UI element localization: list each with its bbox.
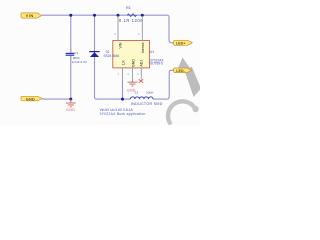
svg-text:SOT89-5: SOT89-5 (150, 62, 163, 66)
svg-text:LX: LX (121, 60, 125, 65)
svg-text:R1: R1 (126, 6, 131, 10)
wire: C1 pin segments (grey) (70, 49, 72, 60)
junction node LX rail (121, 98, 124, 101)
pin stub LX (bottom) (122, 68, 124, 81)
svg-text:LED-: LED- (176, 69, 185, 73)
wire: VIN top rail (42, 14, 167, 16)
svg-text:VIN: VIN (119, 42, 123, 48)
svg-text:SS24 SMA: SS24 SMA (104, 54, 120, 58)
port VIN (21, 13, 42, 18)
junction node GND rail (69, 98, 72, 101)
svg-text:VIN: VIN (26, 13, 34, 18)
wire: GND rail bottom-left (42, 98, 70, 100)
no-connect X on ADJ pin (139, 79, 143, 83)
capacitor C1 (66, 51, 88, 64)
svg-text:GND: GND (26, 97, 35, 101)
svg-text:3Y022AX Buck application: 3Y022AX Buck application (100, 112, 146, 116)
wire: top rail corner down to LED+ port (167, 15, 174, 43)
svg-text:ADJ: ADJ (140, 60, 144, 67)
grey arc watermark (168, 101, 195, 122)
port LED+ (174, 40, 193, 45)
junction node R1 left / VIN pin (117, 14, 120, 17)
svg-text:10uH: 10uH (146, 91, 153, 95)
svg-text:0.1R 1206: 0.1R 1206 (119, 18, 143, 23)
svg-text:GND: GND (131, 59, 135, 67)
pin stub Isense (top) (141, 16, 143, 41)
IC U1 body (113, 41, 150, 68)
inductor L1 (130, 91, 162, 107)
pin stub GND (bottom) (132, 68, 134, 81)
ground symbol at U1 GND pin (128, 80, 138, 86)
svg-text:LED+: LED+ (176, 41, 186, 45)
svg-text:2.2uF 6.3V: 2.2uF 6.3V (72, 60, 88, 64)
svg-text:Isense: Isense (141, 42, 145, 53)
wire: D1 pin segments (grey) (94, 43, 96, 63)
wire: LX pin down to rail (122, 80, 124, 99)
svg-text:C1: C1 (74, 51, 78, 55)
wire: LX rail with inductor to LED- port (123, 70, 174, 99)
svg-text:L1: L1 (135, 91, 139, 95)
pin stub ADJ (bottom) (140, 68, 142, 80)
svg-text:INDUCTOR SMD: INDUCTOR SMD (131, 102, 163, 106)
pin stub VIN (top) (117, 16, 119, 41)
svg-text:GND: GND (66, 108, 75, 112)
port LED- (174, 68, 192, 73)
port GND (21, 96, 42, 101)
wire: C1 branch vertical (70, 15, 72, 99)
mouse cursor (grey arrow) (176, 57, 201, 97)
junction node rail/D1 (93, 14, 96, 17)
resistor R1 (119, 6, 143, 23)
wire: D1 branch vertical to LX rail (95, 15, 123, 99)
svg-text:U1: U1 (150, 50, 154, 54)
ground symbol at GND rail (66, 99, 76, 107)
junction node rail/C1 (69, 14, 72, 17)
junction node R1 right / Isense pin (141, 14, 144, 17)
diode D1 (89, 50, 120, 58)
